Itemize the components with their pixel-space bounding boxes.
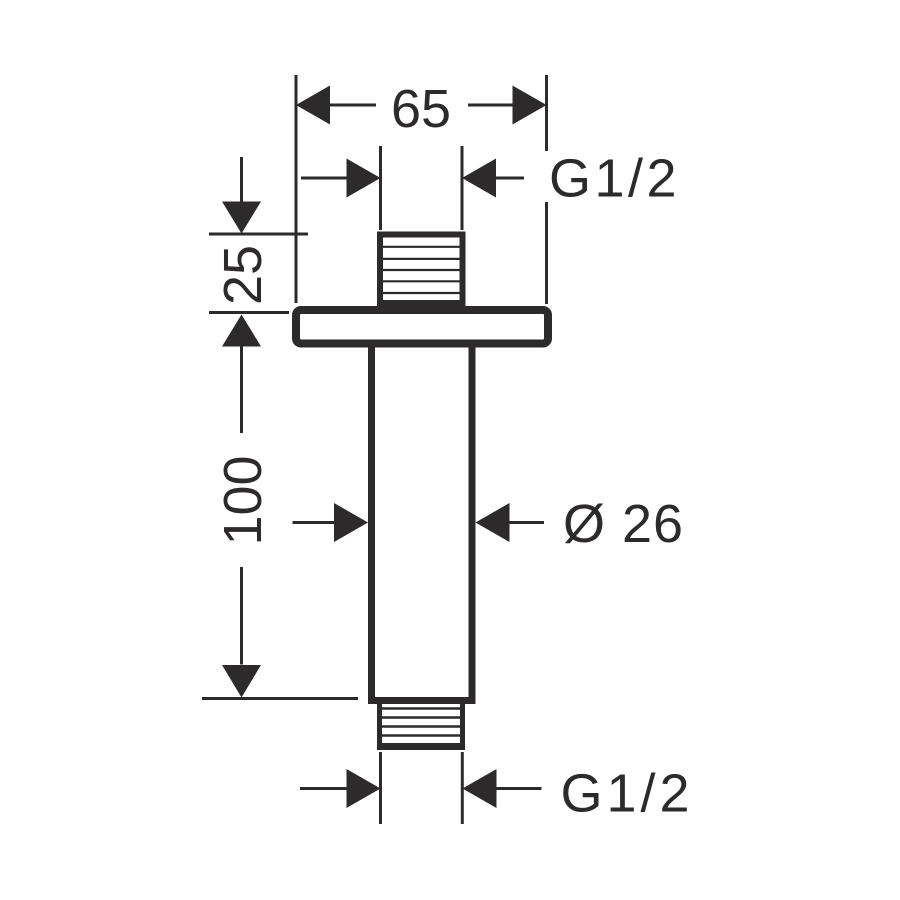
svg-text:100: 100 (213, 455, 273, 545)
threaded connector bottom (G1/2 thread) (377, 702, 465, 748)
dimension arrow left of top G1/2 (301, 159, 381, 198)
wire: vertical dimension line segment below 100 label (240, 567, 243, 665)
dimension arrow down to top of 25 (222, 202, 261, 234)
dimension arrow right of top G1/2 (462, 159, 524, 198)
wire: left extension line of bottom G1/2 (379, 752, 382, 824)
wire: vertical dimension line upper tail (25) (240, 157, 243, 202)
dimension arrow right of bottom G1/2 (463, 769, 542, 808)
dimension arrow left of bottom G1/2 (300, 769, 381, 808)
dimension arrow left of diameter 26 (293, 503, 369, 542)
svg-text:65: 65 (391, 79, 451, 139)
dimension arrow right of diameter 26 (476, 503, 545, 542)
wire: extension line bottom of 100 (202, 697, 358, 700)
svg-text:G1/2: G1/2 (549, 149, 680, 209)
dimension arrow up to bottom of 25 (222, 315, 261, 347)
wire: right extension line of 65 dimension (upper segment) (545, 75, 548, 151)
wire: vertical dimension line segment between arrow and 100 label (240, 346, 243, 433)
wire: right extension line of 65 dimension (lower segment) (545, 202, 548, 304)
dimension arrow down to bottom of 100 (222, 665, 261, 698)
threaded connector top (G1/2 thread) (380, 235, 463, 304)
ceiling flange plate (296, 310, 548, 344)
dimension arrow left of 65 (296, 86, 376, 125)
wire: left extension line of top G1/2 (379, 146, 382, 230)
wire: extension line top of 25 (209, 233, 308, 236)
svg-text:25: 25 (213, 245, 273, 305)
dimension arrow right of 65 (468, 86, 547, 125)
svg-text:G1/2: G1/2 (561, 764, 694, 824)
wire: right extension line of top G1/2 (461, 146, 464, 230)
wire: left extension line of 65 dimension (295, 75, 298, 303)
wire: extension line bottom of 25 / top of 100 (209, 311, 289, 314)
svg-text:Ø 26: Ø 26 (563, 494, 684, 554)
pipe body (shower arm tube) (372, 345, 473, 701)
wire: right extension line of bottom G1/2 (461, 752, 464, 824)
